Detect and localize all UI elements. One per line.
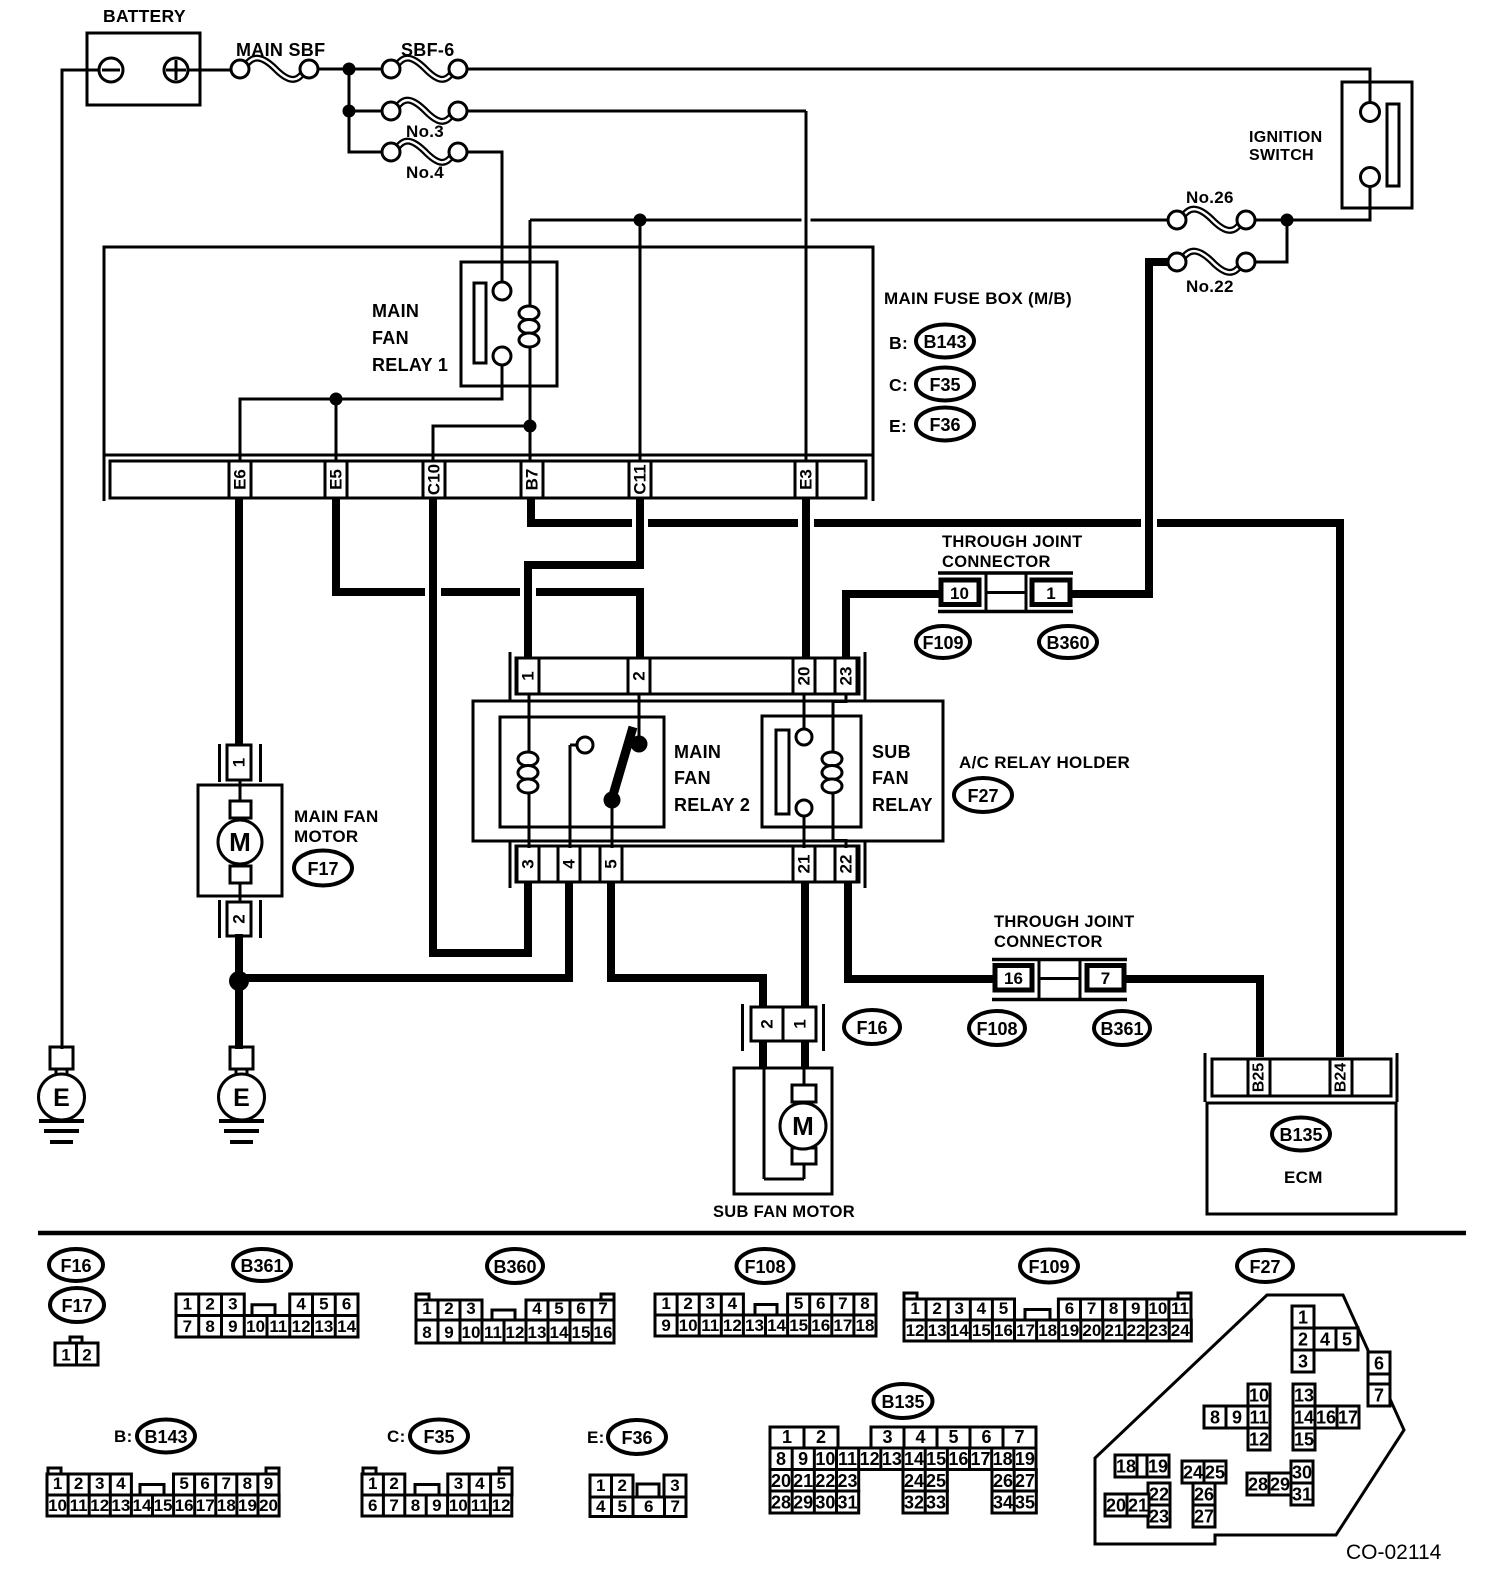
svg-text:3: 3 [955, 1299, 964, 1318]
svg-text:26: 26 [993, 1471, 1013, 1491]
F27 cavity 29 [1269, 1473, 1291, 1495]
F27 cavity 27 [1193, 1505, 1215, 1527]
F27 cavity 21 [1127, 1494, 1149, 1516]
svg-text:13: 13 [111, 1496, 130, 1515]
svg-text:8: 8 [422, 1323, 431, 1342]
node E junction dot [524, 420, 537, 433]
svg-text:MAIN: MAIN [372, 301, 419, 321]
svg-text:No.4: No.4 [406, 163, 444, 182]
main fan motor M1 [198, 785, 282, 896]
svg-text:13: 13 [314, 1317, 333, 1336]
relay 2 pin 2 to contact [638, 694, 641, 744]
svg-text:7: 7 [671, 1497, 680, 1516]
svg-text:4: 4 [596, 1497, 606, 1516]
svg-text:13: 13 [528, 1323, 547, 1342]
svg-text:MOTOR: MOTOR [294, 827, 358, 846]
wire relay holder pin 22 to through joint connector 16 (thick) [848, 883, 996, 979]
svg-text:E6: E6 [231, 469, 250, 490]
ignition switch S1 [1342, 82, 1412, 208]
F27 cavity 13 [1293, 1384, 1315, 1406]
svg-text:22: 22 [815, 1471, 835, 1491]
svg-text:2: 2 [230, 914, 249, 923]
svg-text:B7: B7 [523, 469, 542, 491]
main fuse box outline [104, 247, 873, 455]
svg-text:3: 3 [670, 1476, 679, 1495]
svg-text:12: 12 [292, 1317, 311, 1336]
svg-text:20: 20 [259, 1496, 278, 1515]
svg-text:F27: F27 [1249, 1257, 1280, 1277]
svg-text:5: 5 [794, 1294, 803, 1313]
svg-text:B24: B24 [1333, 1063, 1350, 1092]
sub fan relay box [762, 716, 861, 827]
svg-text:16: 16 [811, 1316, 830, 1335]
svg-text:F36: F36 [929, 415, 960, 435]
svg-text:B361: B361 [1100, 1019, 1143, 1039]
svg-text:2: 2 [82, 1346, 91, 1365]
svg-text:3: 3 [466, 1299, 475, 1318]
connector ref F109 [916, 626, 970, 658]
sub fan motor M2 [734, 1068, 832, 1194]
svg-text:6: 6 [368, 1496, 377, 1515]
svg-text:1: 1 [596, 1476, 605, 1495]
F27 cavity 17 [1337, 1406, 1359, 1428]
ground E (battery side) [50, 1047, 73, 1069]
connector ref F16 (pinout) [49, 1249, 103, 1281]
svg-text:17: 17 [971, 1449, 991, 1469]
svg-text:F36: F36 [621, 1428, 652, 1448]
relay holder pin 23 cell [834, 658, 837, 694]
svg-text:21: 21 [1128, 1496, 1148, 1516]
svg-text:17: 17 [1016, 1321, 1035, 1340]
svg-text:2: 2 [932, 1299, 941, 1318]
svg-text:MAIN FUSE BOX (M/B): MAIN FUSE BOX (M/B) [884, 289, 1072, 308]
wire ignition switch lower terminal to node C [1287, 186, 1370, 220]
svg-text:4: 4 [116, 1474, 126, 1493]
svg-text:12: 12 [492, 1496, 511, 1515]
svg-text:1: 1 [782, 1427, 792, 1447]
svg-text:22: 22 [837, 855, 856, 874]
svg-text:7: 7 [1374, 1386, 1384, 1406]
relay holder pin 5 cell [599, 846, 602, 882]
svg-text:16: 16 [1004, 969, 1023, 988]
svg-text:4: 4 [977, 1299, 987, 1318]
svg-text:F35: F35 [423, 1427, 454, 1447]
svg-text:12: 12 [860, 1449, 880, 1469]
svg-text:14: 14 [767, 1316, 786, 1335]
svg-text:F27: F27 [967, 786, 998, 806]
svg-text:2: 2 [444, 1299, 453, 1318]
svg-text:10: 10 [48, 1496, 67, 1515]
svg-text:No.22: No.22 [1186, 277, 1234, 296]
svg-text:6: 6 [200, 1474, 209, 1493]
node B junction dot [343, 105, 356, 118]
svg-text:11: 11 [1171, 1299, 1189, 1318]
svg-text:2: 2 [389, 1474, 398, 1493]
svg-text:B360: B360 [1046, 633, 1089, 653]
sub fan motor connector F16 pins 2/1 [741, 1004, 744, 1051]
svg-text:18: 18 [1038, 1321, 1057, 1340]
through joint connector upper body [938, 571, 1073, 575]
svg-text:14: 14 [550, 1323, 569, 1342]
wire relay holder pin 5 to sub fan motor pin 2 (thick) [611, 883, 763, 1008]
svg-text:FAN: FAN [372, 328, 409, 348]
svg-text:35: 35 [1015, 1493, 1035, 1513]
wire pin E5 to relay 2 pin 2 (thick) [336, 498, 640, 659]
svg-text:IGNITION: IGNITION [1249, 129, 1323, 146]
svg-text:M: M [229, 827, 251, 857]
pin C10 cell [422, 461, 425, 498]
svg-text:12: 12 [1249, 1430, 1269, 1450]
svg-text:F35: F35 [929, 375, 960, 395]
svg-text:4: 4 [1320, 1330, 1330, 1350]
svg-text:13: 13 [1294, 1386, 1314, 1406]
svg-text:17: 17 [196, 1496, 215, 1515]
svg-text:9: 9 [1131, 1299, 1140, 1318]
node D junction dot [634, 214, 647, 227]
F27 cavity 24 [1182, 1461, 1204, 1483]
svg-text:13: 13 [882, 1449, 902, 1469]
pin C11 cell [628, 461, 631, 498]
wire node B to fuse No.3 [349, 110, 382, 113]
svg-text:20: 20 [1106, 1496, 1126, 1516]
fuse MAIN SBF [247, 58, 303, 79]
svg-text:No.26: No.26 [1186, 188, 1234, 207]
svg-text:9: 9 [444, 1323, 453, 1342]
battery B [87, 33, 200, 105]
svg-text:4: 4 [475, 1474, 485, 1493]
svg-text:19: 19 [1060, 1321, 1079, 1340]
svg-text:19: 19 [1148, 1457, 1168, 1477]
F27 cavity 30 [1291, 1461, 1313, 1483]
svg-text:7: 7 [838, 1294, 847, 1313]
svg-text:MAIN: MAIN [674, 742, 721, 762]
svg-text:20: 20 [795, 667, 814, 686]
svg-text:30: 30 [815, 1493, 835, 1513]
svg-text:6: 6 [644, 1497, 653, 1516]
connector ref F108 (pinout) [737, 1249, 794, 1283]
svg-text:16: 16 [948, 1449, 968, 1469]
svg-text:F16: F16 [856, 1018, 887, 1038]
wire fuse No.26 to node D (relay 1 coil / C11 line) [530, 219, 1169, 222]
svg-text:3: 3 [519, 859, 538, 868]
wire relay holder pin 4 to motor ground node (thick) [237, 883, 569, 978]
svg-text:8: 8 [411, 1496, 420, 1515]
svg-text:6: 6 [342, 1295, 351, 1314]
wire pin C11 to relay 2 pin 1 (thick) with crossing breaks [632, 518, 636, 528]
wire battery positive to MAIN SBF fuse [187, 69, 231, 72]
svg-text:MAIN SBF: MAIN SBF [236, 40, 325, 60]
svg-text:C:: C: [387, 1427, 406, 1446]
wire MAIN SBF to node A [318, 68, 349, 71]
svg-text:2: 2 [618, 1476, 627, 1495]
svg-text:7: 7 [1014, 1427, 1024, 1447]
svg-text:SUB: SUB [872, 742, 911, 762]
wire fuse No.22 down to through joint connector 1 (thick) with crossing break [1141, 518, 1145, 528]
svg-text:25: 25 [1205, 1463, 1225, 1483]
F27 cavity 7 [1368, 1384, 1390, 1406]
svg-text:9: 9 [264, 1474, 273, 1493]
svg-text:THROUGH JOINT: THROUGH JOINT [942, 533, 1082, 551]
svg-text:F109: F109 [1028, 1257, 1069, 1277]
svg-text:CO-02114: CO-02114 [1346, 1541, 1442, 1564]
main fuse box connector strip [110, 461, 866, 498]
pin E3 cell [794, 461, 797, 498]
svg-text:6: 6 [1374, 1354, 1384, 1374]
wire main fan motor pin 2 to ground (thick) [235, 934, 243, 1049]
sub fan relay contact to pin 21 [803, 815, 806, 848]
connector F35 pinout 1-12 [363, 1468, 376, 1474]
fuse SBF-6 [398, 58, 452, 79]
svg-text:10: 10 [815, 1449, 835, 1469]
svg-text:3: 3 [882, 1427, 892, 1447]
svg-text:1: 1 [61, 1346, 70, 1365]
wire node C to fuse No.26 [1254, 219, 1287, 222]
svg-text:11: 11 [471, 1496, 489, 1515]
svg-text:C:: C: [889, 375, 908, 395]
svg-text:B143: B143 [923, 332, 966, 352]
svg-text:7: 7 [389, 1496, 398, 1515]
F27 cavity 16 [1315, 1406, 1337, 1428]
svg-text:31: 31 [1292, 1485, 1312, 1505]
svg-text:6: 6 [816, 1294, 825, 1313]
svg-text:1: 1 [910, 1299, 919, 1318]
ECM pin B24 cell [1329, 1059, 1332, 1096]
ECM ref B135 [1272, 1118, 1330, 1151]
svg-text:14: 14 [950, 1321, 969, 1340]
F27 cavity 28 [1247, 1473, 1269, 1495]
F27 cavity 26 [1193, 1483, 1215, 1505]
wire node A to SBF-6 [349, 68, 382, 71]
svg-text:19: 19 [1015, 1449, 1035, 1469]
svg-text:16: 16 [1316, 1408, 1336, 1428]
F27 cavity 1 [1292, 1306, 1314, 1328]
relay 2 coil feed from pin 1 [528, 694, 531, 751]
svg-text:10: 10 [950, 584, 969, 603]
relay 2 coil to pin 3 [528, 793, 531, 848]
connector ref B135 (pinout) [874, 1384, 933, 1418]
connector B143 pinout 1-20 [48, 1468, 61, 1474]
F27 spacer cavity below 6 [1368, 1374, 1390, 1384]
relay 2 coil L1 [518, 752, 538, 766]
svg-text:F17: F17 [61, 1296, 92, 1316]
svg-text:32: 32 [904, 1493, 924, 1513]
svg-text:14: 14 [1294, 1408, 1314, 1428]
relay 2 aux contact wire to pin 4 [570, 744, 577, 747]
svg-text:3: 3 [95, 1474, 104, 1493]
svg-text:8: 8 [1210, 1408, 1220, 1428]
sub fan relay coil feed from pin 23 [845, 694, 848, 703]
connector ref F27 (pinout) [1237, 1250, 1293, 1282]
svg-text:SUB FAN MOTOR: SUB FAN MOTOR [713, 1203, 855, 1221]
svg-text:2: 2 [205, 1295, 214, 1314]
svg-text:9: 9 [798, 1449, 808, 1469]
svg-text:25: 25 [926, 1471, 946, 1491]
svg-text:27: 27 [1015, 1471, 1035, 1491]
svg-text:RELAY 2: RELAY 2 [674, 795, 750, 815]
connector B135 pinout rows [770, 1427, 838, 1448]
svg-text:13: 13 [928, 1321, 947, 1340]
wire relay holder pin 23 up to through joint connector 10 (thick) [846, 594, 942, 659]
wire pin E6 to main fan motor pin 1 (thick) [235, 498, 243, 746]
svg-text:28: 28 [1248, 1475, 1268, 1495]
relay holder pin 1 cell [516, 658, 519, 694]
svg-text:4: 4 [915, 1427, 925, 1447]
svg-text:6: 6 [981, 1427, 991, 1447]
relay holder ref F27 [954, 778, 1012, 812]
svg-text:8: 8 [860, 1294, 869, 1313]
svg-text:7: 7 [1087, 1299, 1096, 1318]
connector ref F17 (pinout) [50, 1288, 104, 1322]
connector ref F109 (pinout) [1020, 1250, 1078, 1283]
svg-text:24: 24 [1171, 1321, 1190, 1340]
svg-text:B25: B25 [1251, 1063, 1268, 1092]
svg-text:14: 14 [337, 1317, 356, 1336]
svg-text:FAN: FAN [872, 768, 909, 788]
svg-text:11: 11 [701, 1316, 719, 1335]
connector F16/F17 pinout 1-2 [70, 1337, 82, 1343]
wire relay holder pin 21 to sub fan motor pin 1 (thick) [801, 883, 809, 1008]
connector ref B361 [1094, 1011, 1150, 1045]
F27 spacer cavity between 18 and 19 [1137, 1455, 1147, 1477]
svg-text:B361: B361 [240, 1256, 283, 1276]
F27 cavity 4 [1314, 1328, 1336, 1350]
svg-text:9: 9 [228, 1317, 237, 1336]
fuse No.26 [1184, 209, 1240, 230]
svg-text:1: 1 [1046, 584, 1055, 603]
wire SBF-6 to ignition switch terminal [467, 69, 1370, 103]
wire fuse No.4 to main fan relay 1 contact terminal [467, 152, 502, 282]
svg-text:1: 1 [422, 1299, 431, 1318]
F27 cavity 12 [1248, 1428, 1270, 1450]
svg-text:7: 7 [183, 1317, 192, 1336]
wire fuse No.3 to fuse-box pin E3 riser [467, 110, 806, 113]
svg-text:F16: F16 [60, 1256, 91, 1276]
svg-text:E5: E5 [327, 469, 346, 490]
svg-text:C11: C11 [631, 464, 650, 494]
svg-text:4: 4 [728, 1294, 738, 1313]
svg-text:10: 10 [449, 1496, 468, 1515]
svg-text:18: 18 [1116, 1457, 1136, 1477]
svg-text:26: 26 [1194, 1485, 1214, 1505]
svg-text:2: 2 [1298, 1330, 1308, 1350]
F27 cavity 22 [1148, 1483, 1170, 1505]
svg-text:5: 5 [179, 1474, 188, 1493]
wire battery negative to ground E (left rail) [62, 70, 99, 1049]
svg-text:15: 15 [1294, 1430, 1314, 1450]
connector B361 pinout 1-14 [176, 1294, 244, 1316]
ECM connector strip [1212, 1059, 1391, 1096]
svg-text:34: 34 [993, 1493, 1013, 1513]
F27 cavity 6 [1368, 1352, 1390, 1374]
svg-text:3: 3 [228, 1295, 237, 1314]
svg-text:5: 5 [319, 1295, 328, 1314]
svg-text:20: 20 [771, 1471, 791, 1491]
svg-text:8: 8 [243, 1474, 252, 1493]
connector F109 pinout 1-24 [904, 1293, 917, 1299]
pin E5 cell [324, 461, 327, 498]
sub fan relay coil to pin 22 [832, 793, 835, 841]
relay holder pin 3 cell [516, 846, 519, 882]
relay holder upper connector strip [516, 658, 859, 694]
svg-text:RELAY 1: RELAY 1 [372, 355, 448, 375]
F27 cavity 9 [1226, 1406, 1248, 1428]
svg-text:11: 11 [269, 1317, 287, 1336]
svg-text:ECM: ECM [1284, 1168, 1323, 1187]
svg-text:10: 10 [462, 1323, 481, 1342]
through joint terminal 16 [995, 966, 1032, 991]
svg-text:13: 13 [745, 1316, 764, 1335]
svg-text:15: 15 [572, 1323, 591, 1342]
svg-text:F17: F17 [307, 859, 338, 879]
wire relay 1 coil bottom to node E and pin B7 [529, 346, 532, 461]
svg-text:FAN: FAN [674, 768, 711, 788]
svg-text:B143: B143 [144, 1427, 187, 1447]
sub fan motor feed stubs [759, 1041, 767, 1068]
svg-text:15: 15 [154, 1496, 173, 1515]
A/C relay holder box [473, 701, 943, 841]
svg-text:1: 1 [1298, 1308, 1308, 1328]
svg-text:SWITCH: SWITCH [1249, 147, 1314, 164]
connector ref F16 at sub fan motor [844, 1010, 900, 1044]
svg-text:7: 7 [1101, 969, 1110, 988]
svg-text:4: 4 [560, 859, 579, 869]
motor ref F17 [294, 851, 352, 886]
F27 cavity 15 [1293, 1428, 1315, 1450]
wire node A down to node B [348, 69, 351, 111]
ground E (main fan motor side) [230, 1047, 253, 1069]
svg-text:22: 22 [1149, 1485, 1169, 1505]
svg-text:C10: C10 [425, 464, 444, 495]
svg-text:21: 21 [795, 855, 814, 874]
svg-text:11: 11 [838, 1449, 857, 1469]
svg-text:1: 1 [183, 1295, 192, 1314]
through joint terminal 1 [1032, 580, 1070, 605]
svg-text:18: 18 [217, 1496, 236, 1515]
svg-text:1: 1 [53, 1474, 62, 1493]
svg-text:23: 23 [1149, 1507, 1169, 1527]
F27 cavity 2 [1292, 1328, 1314, 1350]
svg-text:10: 10 [246, 1317, 265, 1336]
svg-text:3: 3 [1298, 1352, 1308, 1372]
svg-text:2: 2 [683, 1294, 692, 1313]
svg-text:4: 4 [296, 1295, 306, 1314]
relay 2 moving contact wire to pin 5 [611, 808, 614, 848]
wire node D down to pin C11 [639, 220, 642, 461]
svg-text:11: 11 [484, 1323, 502, 1342]
through joint terminal 7 [1087, 966, 1124, 991]
wire node F down to pin E5 [335, 399, 338, 461]
wire relay 1 contact to pin E6 [240, 365, 502, 461]
svg-text:9: 9 [432, 1496, 441, 1515]
svg-text:28: 28 [771, 1493, 791, 1513]
svg-text:B135: B135 [1279, 1125, 1322, 1145]
svg-text:B135: B135 [881, 1392, 924, 1412]
connector F108 pinout 1-18 [655, 1294, 743, 1315]
svg-text:19: 19 [238, 1496, 257, 1515]
svg-text:M: M [792, 1111, 814, 1141]
F27 cavity 31 [1291, 1483, 1313, 1505]
motor ground junction dot [229, 971, 249, 991]
svg-text:1: 1 [519, 671, 538, 680]
wire pin B7 horizontal run to ECM B24 (thick) [531, 498, 1340, 1057]
svg-text:12: 12 [906, 1321, 925, 1340]
svg-text:2: 2 [74, 1474, 83, 1493]
main fan motor pin 2 connector [218, 900, 221, 938]
svg-text:E: E [233, 1084, 250, 1112]
svg-text:5: 5 [602, 859, 621, 868]
F27 cavity 14 [1293, 1406, 1315, 1428]
svg-text:15: 15 [789, 1316, 808, 1335]
